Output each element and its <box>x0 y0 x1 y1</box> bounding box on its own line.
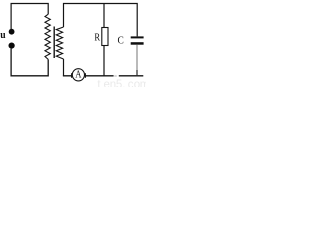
watermark text <box>97 79 149 91</box>
capacitor C plate upper <box>131 36 144 38</box>
svg-text:m: m <box>140 79 146 87</box>
source terminal dot lower <box>9 43 15 49</box>
resistor R box <box>102 28 108 46</box>
transformer primary winding L1 <box>45 14 50 59</box>
capacitor C plate lower <box>131 42 144 45</box>
svg-text:u: u <box>0 30 6 42</box>
ammeter terminal tick right <box>84 73 86 78</box>
wire primary top <box>11 4 48 30</box>
transformer secondary winding L2 <box>56 27 63 59</box>
wire R branch bottom <box>103 46 105 77</box>
svg-text:A: A <box>75 69 82 81</box>
wire secondary left bottom <box>63 59 65 76</box>
svg-text:t: t <box>97 79 101 87</box>
wire secondary left + top <box>64 4 138 37</box>
wire C branch lower (greyed) <box>136 45 138 70</box>
source terminal dot upper <box>9 29 15 35</box>
ammeter A circle <box>72 69 84 81</box>
ammeter terminal tick left <box>71 73 73 78</box>
svg-text:R: R <box>94 32 100 44</box>
wire primary bottom-left <box>11 49 48 76</box>
watermark gap on bottom wire <box>114 75 119 77</box>
transformer core <box>53 27 55 59</box>
wire secondary bottom <box>63 75 143 77</box>
svg-text:C: C <box>118 35 125 47</box>
svg-text:.: . <box>122 79 125 87</box>
wire R branch top <box>103 4 105 28</box>
